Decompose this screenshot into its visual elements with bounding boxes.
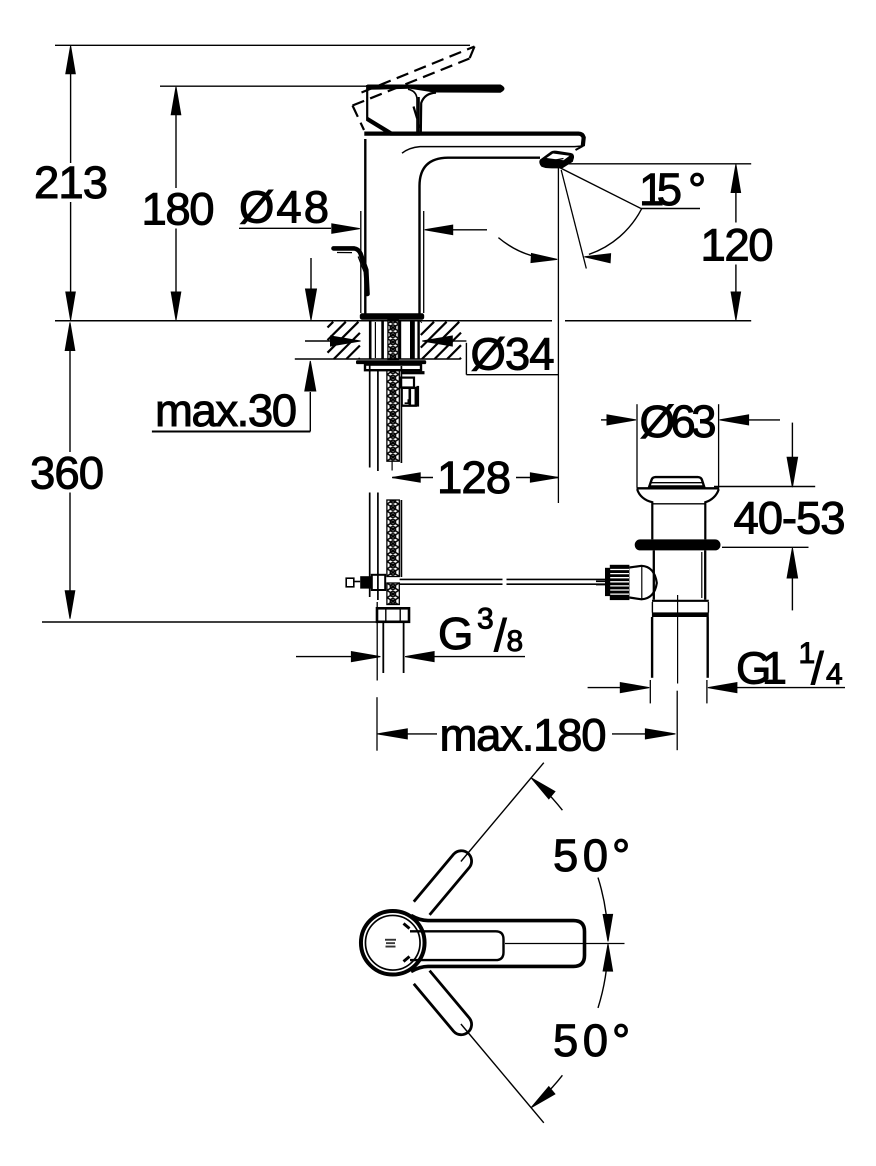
extension line Ø48 right — [423, 211, 425, 313]
reference line 40-53 top — [714, 486, 815, 488]
threaded rod tail — [387, 583, 399, 605]
top view lever outer — [411, 916, 585, 972]
faucet centerline stub — [391, 462, 393, 471]
deck cross-section hatching — [328, 322, 334, 328]
top view base circle outer — [361, 911, 425, 975]
svg-text:Ø63: Ø63 — [640, 396, 717, 447]
flexible hose below deck seg1 — [369, 365, 371, 468]
15 deg angle arc right segment — [589, 208, 642, 254]
drain body — [653, 550, 655, 599]
dimension arrows 40-53 — [791, 423, 793, 458]
drain tailpipe — [651, 617, 653, 678]
svg-text:°: ° — [612, 1015, 630, 1066]
dimension line 128 — [392, 473, 420, 482]
ghost lever lower 50deg — [414, 971, 472, 1035]
diagonal line lower 50deg — [461, 1024, 544, 1123]
dashed raised lever outline — [353, 47, 475, 131]
50deg arc upper — [541, 787, 562, 811]
dimension line 120 — [731, 165, 741, 193]
drain knob housing — [629, 566, 656, 600]
dimension line 180 — [175, 90, 177, 188]
drain rod entering knob — [596, 580, 605, 582]
extension line max180 right — [676, 691, 678, 751]
svg-text:360: 360 — [30, 447, 104, 498]
svg-text:128: 128 — [437, 452, 511, 503]
extension line Ø48 left — [360, 211, 362, 313]
washer under deck — [356, 360, 426, 364]
svg-text:180: 180 — [142, 183, 215, 234]
extension lines Ø63 — [636, 404, 638, 487]
reference line 360 bottom — [42, 621, 383, 623]
threaded rod below deck seg1 — [387, 370, 399, 461]
svg-text:°: ° — [688, 164, 706, 215]
15 deg angle arc left segment — [498, 238, 552, 260]
ghost lever upper 50deg — [414, 851, 472, 915]
svg-text:120: 120 — [701, 219, 774, 270]
svg-text:max.180: max.180 — [440, 709, 607, 760]
faucet column left edge — [364, 139, 366, 314]
dimension max180 — [377, 729, 407, 739]
flexible hose seg2 — [369, 493, 371, 598]
svg-text:213: 213 — [34, 157, 108, 208]
extension line max180 left — [376, 602, 378, 681]
reference line spout height 120 — [565, 163, 751, 165]
spout underside curve — [420, 158, 541, 314]
drain bell (cone) — [637, 487, 720, 489]
tick marks on circle — [404, 924, 410, 929]
handle housing — [367, 85, 419, 135]
svg-text:G1: G1 — [736, 642, 787, 693]
svg-text:Ø34: Ø34 — [471, 329, 555, 380]
top view base circle inner — [365, 915, 420, 970]
dimension G1 1/4 — [588, 687, 622, 689]
pop-up actuator rod (behind column) — [334, 248, 368, 294]
deck bottom line — [295, 358, 461, 360]
dimension line 213 — [70, 49, 72, 163]
drain flange — [635, 539, 721, 550]
svg-text:max.30: max.30 — [155, 385, 297, 436]
G3/8 nut — [377, 608, 409, 622]
faucet base plate — [360, 313, 424, 319]
top view centerline — [505, 943, 625, 945]
pop-up rod guide connector — [402, 371, 425, 374]
diagonal line upper 50deg — [461, 763, 544, 862]
svg-text:40-53: 40-53 — [734, 492, 846, 543]
extension lines G1 1/4 — [649, 680, 651, 703]
grohe logo mark — [385, 939, 396, 941]
mounting nut — [365, 365, 421, 371]
svg-text:4: 4 — [826, 658, 843, 691]
shank parts in deck hole — [369, 320, 372, 360]
dimension arrows Ø34 — [305, 340, 333, 342]
dimension line 360 — [65, 323, 75, 351]
dimension G3/8 — [296, 656, 352, 658]
label Ø34 box — [465, 343, 467, 375]
reference line 180 datum (lever top) — [160, 85, 370, 87]
svg-text:3: 3 — [477, 602, 494, 635]
aerator (spout outlet) — [539, 151, 574, 169]
svg-text:Ø48: Ø48 — [239, 181, 329, 232]
drain pop-up cap — [649, 477, 704, 486]
svg-text:°: ° — [612, 830, 630, 881]
pop-up horizontal rod — [400, 578, 503, 580]
reference line 213 top datum — [55, 44, 470, 46]
svg-text:G: G — [438, 608, 473, 659]
dimension arrow max30 top — [310, 258, 312, 290]
supply pipe G3/8 — [382, 622, 384, 673]
dimension Ø63 — [601, 419, 608, 421]
50deg arc lower — [541, 1075, 562, 1099]
svg-text:/: / — [494, 610, 507, 661]
spout inner highlight line — [402, 146, 583, 153]
svg-text:8: 8 — [507, 625, 524, 658]
reference line 40-53 bottom — [722, 546, 809, 548]
drain knob (knurled) — [605, 568, 610, 596]
spout top surface — [364, 134, 583, 146]
faucet lever handle — [367, 85, 504, 93]
top view lever inner — [410, 931, 504, 960]
svg-text:15: 15 — [639, 164, 682, 215]
drain joint rings — [652, 600, 709, 602]
rod clevis at faucet — [346, 578, 354, 587]
vertical line from spout tip — [557, 166, 559, 503]
svg-text:/: / — [811, 643, 824, 694]
leader line 15 deg — [641, 208, 700, 210]
water stream line 15 deg — [561, 170, 586, 269]
spout end face — [576, 138, 584, 151]
deck top line — [55, 320, 552, 322]
drain centerline — [677, 595, 679, 684]
threaded rod seg2 — [387, 500, 399, 577]
